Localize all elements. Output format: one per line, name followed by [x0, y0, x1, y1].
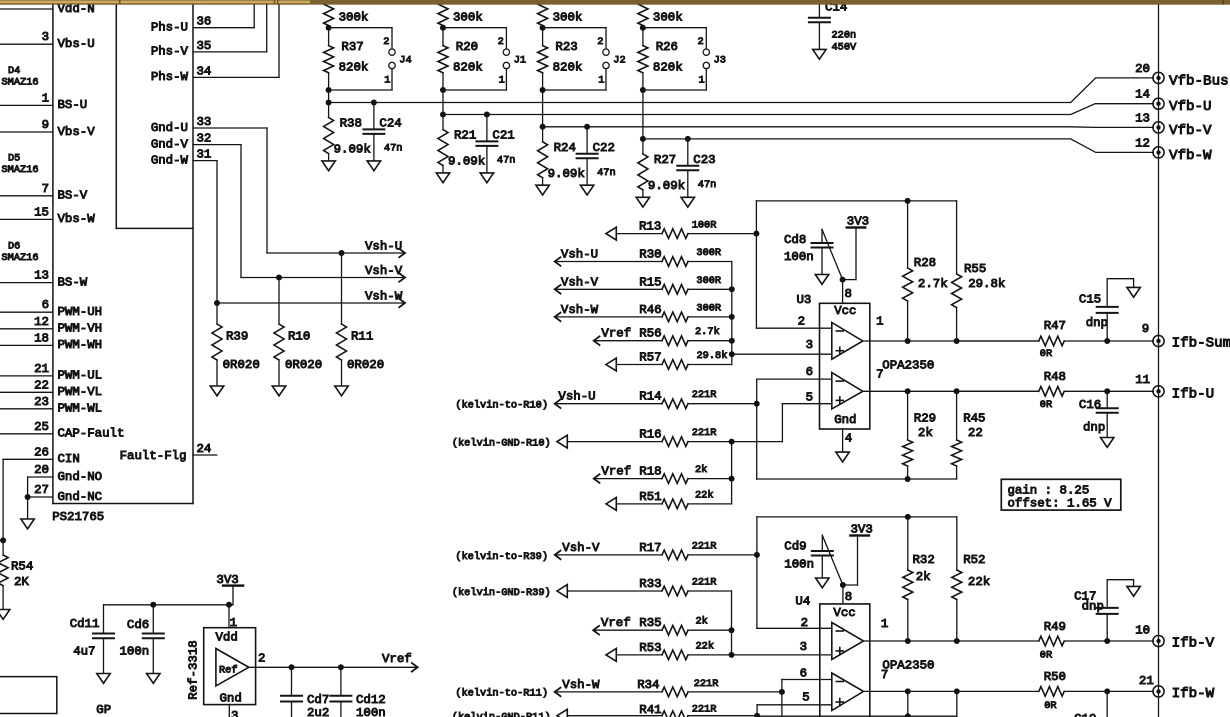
svg-text:100R: 100R: [692, 219, 717, 231]
svg-text:221R: 221R: [692, 703, 717, 715]
svg-text:R39: R39: [226, 330, 248, 344]
svg-text:Cd8: Cd8: [784, 233, 806, 247]
svg-text:R47: R47: [1044, 319, 1066, 333]
svg-text:U3: U3: [797, 293, 812, 307]
svg-text:J1: J1: [514, 54, 526, 66]
svg-text:PWM-UL: PWM-UL: [58, 369, 103, 383]
svg-text:3V3: 3V3: [216, 573, 238, 587]
svg-text:29.8k: 29.8k: [968, 277, 1005, 291]
svg-text:PWM-UH: PWM-UH: [58, 305, 103, 319]
svg-text:C15: C15: [1079, 293, 1101, 307]
svg-text:47n: 47n: [698, 179, 717, 191]
svg-text:12: 12: [34, 315, 49, 329]
svg-text:Vbs-W: Vbs-W: [58, 212, 96, 226]
svg-text:1: 1: [876, 314, 883, 328]
svg-text:221R: 221R: [692, 540, 717, 552]
svg-text:Vsh-W: Vsh-W: [365, 289, 403, 303]
svg-text:0R020: 0R020: [285, 358, 322, 372]
svg-text:221R: 221R: [692, 389, 717, 401]
svg-text:R57: R57: [639, 351, 661, 365]
svg-text:CIN: CIN: [58, 452, 80, 466]
svg-text:26: 26: [34, 445, 49, 459]
svg-text:C22: C22: [593, 141, 615, 155]
svg-text:0R020: 0R020: [223, 358, 260, 372]
svg-text:7: 7: [881, 668, 888, 682]
svg-text:Gnd-NO: Gnd-NO: [58, 470, 103, 484]
svg-text:1: 1: [384, 75, 390, 87]
svg-text:J4: J4: [399, 54, 411, 66]
svg-text:220n: 220n: [832, 30, 857, 42]
svg-text:0R: 0R: [1040, 348, 1052, 360]
svg-text:R54: R54: [11, 560, 33, 574]
svg-text:12: 12: [1135, 136, 1150, 150]
svg-text:Cd7: Cd7: [307, 693, 329, 707]
svg-text:R17: R17: [639, 541, 661, 555]
svg-text:PS21765: PS21765: [52, 510, 104, 524]
svg-text:300R: 300R: [696, 302, 721, 314]
svg-text:R55: R55: [964, 262, 986, 276]
svg-text:Phs-U: Phs-U: [151, 21, 188, 35]
svg-text:R15: R15: [639, 275, 661, 289]
svg-text:22: 22: [968, 426, 983, 440]
svg-text:0R: 0R: [1044, 700, 1056, 712]
svg-text:Vref: Vref: [601, 327, 631, 341]
svg-text:300k: 300k: [553, 11, 583, 25]
svg-text:9.09k: 9.09k: [448, 155, 485, 169]
svg-text:R35: R35: [639, 616, 661, 630]
svg-text:6: 6: [42, 298, 49, 312]
svg-text:Vsh-U: Vsh-U: [561, 248, 598, 262]
svg-text:2: 2: [698, 36, 704, 48]
svg-text:Ref: Ref: [219, 665, 238, 677]
svg-text:J3: J3: [714, 54, 726, 66]
svg-text:D4: D4: [8, 65, 20, 77]
svg-text:4: 4: [845, 432, 852, 446]
svg-text:23: 23: [34, 395, 49, 409]
svg-text:35: 35: [197, 39, 212, 53]
svg-text:22k: 22k: [968, 575, 990, 589]
svg-text:Vref: Vref: [601, 616, 631, 630]
svg-text:221R: 221R: [692, 577, 717, 589]
svg-text:Cd11: Cd11: [70, 617, 100, 631]
svg-text:Vref: Vref: [601, 465, 631, 479]
svg-text:34: 34: [197, 64, 212, 78]
svg-text:U4: U4: [795, 595, 810, 609]
svg-text:6: 6: [806, 365, 813, 379]
svg-text:Gnd-V: Gnd-V: [151, 137, 189, 151]
svg-text:BS-U: BS-U: [58, 98, 88, 112]
svg-text:47n: 47n: [384, 143, 403, 155]
svg-text:Ifb-V: Ifb-V: [1172, 636, 1215, 652]
svg-text:Vsh-V: Vsh-V: [365, 264, 403, 278]
svg-text:CAP-Fault: CAP-Fault: [58, 427, 125, 441]
svg-text:9: 9: [42, 118, 49, 132]
svg-text:Gnd: Gnd: [220, 692, 242, 706]
svg-text:Vsh-W: Vsh-W: [562, 678, 600, 692]
svg-text:(kelvin-GND-R10): (kelvin-GND-R10): [452, 438, 551, 450]
svg-text:C21: C21: [492, 129, 514, 143]
svg-text:Ifb-Sum: Ifb-Sum: [1172, 336, 1230, 352]
svg-text:C16: C16: [1079, 398, 1101, 412]
svg-text:C24: C24: [379, 117, 401, 131]
svg-text:18: 18: [34, 331, 49, 345]
svg-text:820k: 820k: [653, 61, 683, 75]
svg-text:32: 32: [197, 132, 212, 146]
svg-text:20: 20: [34, 463, 49, 477]
svg-text:9: 9: [1142, 322, 1149, 336]
svg-text:7: 7: [42, 182, 49, 196]
svg-text:300R: 300R: [696, 275, 721, 287]
svg-text:R26: R26: [656, 40, 678, 54]
svg-text:10: 10: [1135, 624, 1150, 638]
svg-text:D6: D6: [8, 240, 20, 252]
svg-text:Cd12: Cd12: [356, 693, 386, 707]
svg-text:Vsh-U: Vsh-U: [365, 239, 402, 253]
svg-text:Gnd-NC: Gnd-NC: [58, 490, 103, 504]
svg-text:9.09k: 9.09k: [334, 143, 371, 157]
svg-text:Vsh-V: Vsh-V: [561, 275, 599, 289]
svg-text:Fault-Flg: Fault-Flg: [120, 449, 187, 463]
svg-text:(kelvin-GND-R39): (kelvin-GND-R39): [452, 587, 551, 599]
svg-text:22: 22: [34, 378, 49, 392]
svg-text:PWM-WH: PWM-WH: [58, 338, 103, 352]
svg-text:1: 1: [499, 75, 505, 87]
svg-text:Cd6: Cd6: [127, 618, 149, 632]
svg-text:Gnd-W: Gnd-W: [151, 153, 189, 167]
svg-text:2: 2: [258, 652, 265, 666]
svg-text:15: 15: [34, 205, 49, 219]
svg-text:Cd9: Cd9: [784, 540, 806, 554]
svg-text:R50: R50: [1044, 670, 1066, 684]
svg-text:3: 3: [231, 709, 238, 717]
svg-text:(kelvin-GND-R11): (kelvin-GND-R11): [452, 712, 551, 717]
svg-text:offset: 1.65 V: offset: 1.65 V: [1008, 496, 1113, 510]
svg-text:1: 1: [598, 75, 604, 87]
svg-text:PWM-WL: PWM-WL: [58, 402, 103, 416]
svg-text:820k: 820k: [453, 61, 483, 75]
svg-text:Vcc: Vcc: [833, 606, 855, 620]
svg-text:BS-V: BS-V: [58, 189, 88, 203]
svg-text:9.09k: 9.09k: [548, 167, 585, 181]
svg-text:(kelvin-to-R10): (kelvin-to-R10): [455, 400, 548, 412]
svg-text:C23: C23: [693, 153, 715, 167]
svg-text:21: 21: [1139, 674, 1154, 688]
svg-text:3: 3: [806, 338, 813, 352]
svg-text:820k: 820k: [339, 61, 369, 75]
svg-text:R20: R20: [456, 40, 478, 54]
svg-text:PWM-VH: PWM-VH: [58, 322, 103, 336]
svg-text:2: 2: [801, 616, 808, 630]
svg-text:2.7k: 2.7k: [918, 277, 948, 291]
svg-text:OPA2350: OPA2350: [882, 358, 934, 372]
svg-text:SMAZ16: SMAZ16: [2, 76, 39, 88]
svg-text:R14: R14: [639, 390, 661, 404]
svg-text:(kelvin-to-R39): (kelvin-to-R39): [455, 551, 548, 563]
svg-text:dnp: dnp: [1082, 600, 1104, 614]
svg-text:R23: R23: [555, 40, 577, 54]
svg-text:47n: 47n: [497, 155, 516, 167]
svg-text:2k: 2k: [695, 464, 707, 476]
svg-text:13: 13: [1135, 111, 1150, 125]
svg-text:Vcc: Vcc: [834, 304, 856, 318]
svg-text:R51: R51: [639, 490, 661, 504]
svg-text:Vbs-V: Vbs-V: [58, 125, 96, 139]
svg-text:OPA2350: OPA2350: [882, 659, 934, 673]
svg-text:4u7: 4u7: [73, 645, 95, 659]
svg-text:Vsh-V: Vsh-V: [562, 541, 600, 555]
svg-text:Vfb-Bus: Vfb-Bus: [1169, 73, 1229, 89]
svg-text:Vbs-U: Vbs-U: [58, 37, 95, 51]
svg-text:PWM-VL: PWM-VL: [58, 385, 103, 399]
svg-text:221R: 221R: [692, 427, 717, 439]
svg-text:25: 25: [34, 420, 49, 434]
svg-text:D5: D5: [8, 153, 20, 165]
svg-text:22k: 22k: [695, 489, 714, 501]
svg-text:24: 24: [197, 442, 212, 456]
svg-text:2: 2: [597, 36, 603, 48]
svg-text:100n: 100n: [784, 250, 814, 264]
svg-text:R21: R21: [454, 129, 476, 143]
svg-text:1: 1: [42, 91, 49, 105]
svg-text:100n: 100n: [784, 558, 814, 572]
svg-text:2K: 2K: [14, 575, 29, 589]
svg-text:300k: 300k: [453, 11, 483, 25]
svg-text:2: 2: [498, 36, 504, 48]
svg-text:Vsh-W: Vsh-W: [561, 303, 599, 317]
svg-text:dnp: dnp: [1083, 421, 1105, 435]
svg-text:100n: 100n: [356, 706, 386, 717]
svg-text:31: 31: [197, 148, 212, 162]
svg-text:2k: 2k: [696, 616, 708, 628]
svg-text:100n: 100n: [120, 645, 150, 659]
svg-text:R30: R30: [639, 248, 661, 262]
svg-text:9.09k: 9.09k: [648, 179, 685, 193]
svg-text:11: 11: [1135, 373, 1150, 387]
svg-text:7: 7: [876, 368, 883, 382]
svg-text:R33: R33: [639, 577, 661, 591]
svg-text:R18: R18: [639, 465, 661, 479]
svg-text:Ref-3318: Ref-3318: [187, 640, 201, 700]
svg-text:5: 5: [806, 391, 813, 405]
svg-text:gain : 8.25: gain : 8.25: [1008, 483, 1090, 497]
svg-text:6: 6: [800, 666, 807, 680]
svg-text:33: 33: [197, 115, 212, 129]
svg-text:(kelvin-to-R11): (kelvin-to-R11): [455, 688, 548, 700]
svg-text:Phs-W: Phs-W: [151, 70, 189, 84]
svg-text:Vsh-U: Vsh-U: [558, 390, 595, 404]
svg-text:3: 3: [800, 640, 807, 654]
svg-text:2: 2: [383, 36, 389, 48]
svg-text:450V: 450V: [832, 41, 858, 53]
svg-text:R28: R28: [914, 256, 936, 270]
svg-text:2k: 2k: [918, 426, 933, 440]
svg-text:R46: R46: [639, 303, 661, 317]
svg-text:820k: 820k: [553, 61, 583, 75]
svg-text:SMAZ16: SMAZ16: [2, 164, 39, 176]
svg-text:300k: 300k: [653, 11, 683, 25]
svg-text:Vfb-V: Vfb-V: [1169, 123, 1212, 139]
svg-text:R11: R11: [351, 330, 373, 344]
svg-text:Vdd: Vdd: [216, 631, 238, 645]
svg-text:3V3: 3V3: [851, 523, 873, 537]
svg-text:8: 8: [845, 287, 852, 301]
svg-text:Ifb-U: Ifb-U: [1172, 387, 1215, 403]
svg-text:R37: R37: [341, 40, 363, 54]
svg-text:47n: 47n: [597, 167, 616, 179]
svg-text:R45: R45: [963, 411, 985, 425]
svg-text:R53: R53: [639, 641, 661, 655]
svg-text:300k: 300k: [339, 11, 369, 25]
svg-text:R41: R41: [639, 703, 661, 717]
svg-text:2k: 2k: [916, 570, 931, 584]
svg-text:13: 13: [34, 269, 49, 283]
svg-text:1: 1: [699, 75, 705, 87]
svg-text:R24: R24: [554, 141, 576, 155]
svg-text:R10: R10: [288, 330, 310, 344]
svg-text:Gnd: Gnd: [834, 413, 856, 427]
svg-text:8: 8: [845, 590, 852, 604]
svg-text:1: 1: [881, 617, 888, 631]
svg-text:21: 21: [34, 362, 49, 376]
svg-text:2: 2: [798, 314, 805, 328]
svg-text:3: 3: [42, 30, 49, 44]
svg-text:Vfb-W: Vfb-W: [1169, 148, 1212, 164]
svg-text:3V3: 3V3: [847, 215, 869, 229]
svg-text:R27: R27: [654, 153, 676, 167]
svg-text:0R: 0R: [1040, 399, 1052, 411]
svg-text:Phs-V: Phs-V: [151, 45, 189, 59]
svg-text:Gnd-U: Gnd-U: [151, 121, 188, 135]
svg-text:R52: R52: [963, 553, 985, 567]
svg-text:27: 27: [34, 483, 49, 497]
svg-text:0R: 0R: [1040, 650, 1052, 662]
svg-text:221R: 221R: [694, 678, 719, 690]
svg-text:0R020: 0R020: [347, 358, 384, 372]
svg-text:29.8k: 29.8k: [697, 350, 728, 362]
svg-text:20: 20: [1135, 62, 1150, 76]
svg-text:R49: R49: [1044, 620, 1066, 634]
svg-text:Vfb-U: Vfb-U: [1169, 99, 1212, 115]
svg-text:R34: R34: [637, 678, 659, 692]
svg-text:R48: R48: [1044, 370, 1066, 384]
svg-text:J2: J2: [613, 54, 625, 66]
svg-text:36: 36: [197, 15, 212, 29]
svg-text:C19: C19: [1074, 712, 1096, 717]
svg-text:BS-W: BS-W: [58, 275, 88, 289]
svg-text:2.7k: 2.7k: [695, 326, 720, 338]
svg-text:14: 14: [1135, 88, 1150, 102]
svg-text:R16: R16: [639, 428, 661, 442]
svg-text:5: 5: [802, 691, 809, 705]
svg-text:Vref: Vref: [382, 652, 412, 666]
svg-text:R13: R13: [639, 220, 661, 234]
svg-text:dnp: dnp: [1086, 316, 1108, 330]
svg-text:R29: R29: [914, 411, 936, 425]
svg-text:R32: R32: [913, 553, 935, 567]
svg-text:300R: 300R: [696, 247, 721, 259]
svg-text:22k: 22k: [696, 640, 715, 652]
svg-text:SMAZ16: SMAZ16: [2, 252, 39, 264]
svg-text:R56: R56: [639, 327, 661, 341]
svg-text:Ifb-W: Ifb-W: [1172, 686, 1215, 702]
svg-text:R38: R38: [340, 117, 362, 131]
svg-text:GP: GP: [96, 703, 111, 717]
svg-text:2u2: 2u2: [307, 706, 329, 717]
